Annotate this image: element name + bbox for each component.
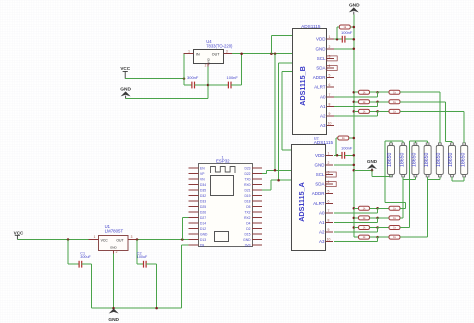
wire stub into ADS1115_B bbox=[282, 71, 292, 73]
battery BT2 18650 bbox=[399, 143, 406, 177]
svg-text:A0: A0 bbox=[319, 210, 325, 215]
resistor R2Bb bbox=[389, 100, 400, 104]
wire bbox=[390, 141, 392, 143]
wire C1 left leg bbox=[67, 240, 69, 265]
resistor R1Bb bbox=[389, 90, 400, 94]
wire GND rail (right) bbox=[353, 15, 355, 238]
wire bbox=[370, 207, 378, 209]
wire bbox=[414, 141, 416, 143]
wire bbox=[414, 177, 416, 180]
resistor R3Ab bbox=[389, 226, 400, 230]
svg-text:GND: GND bbox=[110, 245, 118, 249]
resistor R1Ba bbox=[359, 90, 370, 94]
resistor R3Ba bbox=[359, 109, 370, 113]
wire bbox=[446, 141, 453, 143]
svg-text:300nF: 300nF bbox=[187, 75, 199, 80]
svg-text:GND: GND bbox=[367, 159, 378, 164]
svg-text:5: 5 bbox=[329, 74, 331, 78]
svg-text:VCC: VCC bbox=[120, 66, 130, 71]
svg-text:3: 3 bbox=[329, 54, 331, 58]
svg-text:RX0: RX0 bbox=[244, 183, 251, 187]
wire bbox=[370, 227, 378, 229]
wire bbox=[354, 110, 359, 112]
battery BT7 18650 bbox=[460, 143, 467, 177]
junction rail / divider B3 bbox=[353, 110, 356, 113]
svg-text:RX2: RX2 bbox=[244, 216, 251, 220]
wire to cell 6 top bbox=[451, 142, 453, 144]
wire jog bbox=[377, 208, 379, 213]
svg-text:D2: D2 bbox=[246, 227, 250, 231]
wire bottom bracket cells 4-5 bbox=[428, 178, 440, 180]
wire ADS_A A0 pin bbox=[334, 212, 378, 214]
junction divider A2 tap bbox=[376, 217, 379, 220]
svg-text:D18: D18 bbox=[244, 199, 250, 203]
pin 2 ADS1115_B (GND) bbox=[327, 48, 335, 50]
svg-text:EN: EN bbox=[200, 166, 205, 170]
pin 2 of U1 bbox=[113, 250, 115, 253]
capacitor C6 100nF bbox=[228, 82, 231, 89]
wire bbox=[427, 141, 429, 143]
wire jog bbox=[377, 92, 379, 97]
resistor R3Bb bbox=[389, 109, 400, 113]
wire bbox=[378, 207, 389, 209]
pin 1 of U4 bbox=[184, 53, 194, 55]
wire riser to U4 pin 1 bbox=[183, 54, 185, 79]
wire jog bbox=[377, 218, 379, 223]
wire bottom bracket cells 6-7 bbox=[452, 180, 464, 182]
resistor R0A bbox=[338, 136, 349, 140]
svg-text:18650: 18650 bbox=[412, 152, 418, 167]
svg-text:SCL: SCL bbox=[317, 56, 326, 61]
junction rail / cap A bbox=[353, 154, 356, 157]
pin ESP32 right (TX0) bbox=[252, 178, 262, 180]
wire bbox=[354, 227, 359, 229]
pin 10 ADS1115_A (A3) bbox=[326, 241, 334, 243]
wire bbox=[354, 236, 359, 238]
pin 3 ADS1115_B (SCL) bbox=[327, 57, 335, 59]
wire bbox=[371, 170, 373, 176]
resistor R2Ba bbox=[359, 100, 370, 104]
wire ADS_A A2 pin bbox=[334, 231, 378, 233]
pin 12 ESP32 left (D12) bbox=[189, 228, 199, 230]
svg-text:18650: 18650 bbox=[399, 152, 405, 167]
svg-text:4: 4 bbox=[329, 64, 331, 68]
wire U4 pin2 to GND bus bbox=[207, 67, 209, 99]
pin 9 ADS1115_A (A2) bbox=[326, 231, 334, 233]
wire VDD ADS1115_B bbox=[334, 38, 342, 40]
svg-text:D14: D14 bbox=[200, 221, 206, 225]
svg-text:7: 7 bbox=[328, 209, 330, 213]
wire bbox=[146, 263, 157, 265]
wire tap A4 riser bbox=[427, 179, 429, 237]
wire riser to R0A bbox=[335, 138, 337, 155]
svg-text:1: 1 bbox=[329, 35, 331, 39]
svg-text:100nF: 100nF bbox=[341, 30, 353, 35]
capacitor C4 100nF bbox=[342, 152, 345, 159]
wire C2 left leg bbox=[136, 240, 138, 265]
capacitor C2 100uF bbox=[144, 261, 147, 268]
junction C2 / bus bbox=[155, 307, 158, 310]
wire riser to R0B bbox=[336, 27, 338, 39]
svg-text:ADS1115: ADS1115 bbox=[314, 140, 334, 145]
wire jog bbox=[270, 180, 272, 190]
junction rail / battery GND bbox=[353, 169, 356, 172]
wire 3V3 into ADS1115_B bbox=[271, 35, 292, 37]
junction 5V branch bbox=[181, 238, 184, 241]
pin ESP32 right (D2) bbox=[252, 228, 262, 230]
junction divider B1 tap bbox=[376, 91, 379, 94]
wire 3V3 riser bbox=[270, 36, 272, 54]
resistor R0B bbox=[339, 25, 350, 29]
svg-text:3: 3 bbox=[328, 171, 330, 175]
wire divider B3 to cell bbox=[400, 110, 464, 112]
pin 1 of U1 bbox=[89, 239, 99, 241]
svg-text:2: 2 bbox=[329, 45, 331, 49]
svg-text:8: 8 bbox=[328, 219, 330, 223]
wire divider B3 to cell 7 top bbox=[463, 111, 465, 143]
svg-text:6: 6 bbox=[328, 199, 330, 203]
wire bbox=[463, 177, 465, 181]
junction U1 GND / bus bbox=[112, 307, 115, 310]
wire 5V to ESP32 bbox=[139, 239, 189, 241]
svg-text:D5: D5 bbox=[246, 205, 250, 209]
wire bbox=[378, 236, 389, 238]
pin 2 ESP32 left (VP) bbox=[189, 173, 199, 175]
junction rail / R0B bbox=[353, 26, 356, 29]
svg-text:GND: GND bbox=[200, 232, 208, 236]
wire jog bbox=[265, 170, 267, 173]
wire tap A2 riser bbox=[402, 179, 404, 218]
wire divider A2 out bbox=[400, 217, 403, 219]
svg-text:18650: 18650 bbox=[448, 152, 454, 167]
wire divider B1 to cell 5 top bbox=[439, 92, 441, 143]
wire divider A3 out bbox=[400, 227, 410, 229]
wire GND pin A to rail bbox=[334, 164, 354, 166]
wire riser C6 to 3V3 rail bbox=[241, 54, 243, 85]
wire divider B2 drop bbox=[445, 102, 447, 142]
svg-text:D21: D21 bbox=[244, 188, 250, 192]
battery BT3 18650 bbox=[412, 143, 419, 177]
svg-text:D9: D9 bbox=[200, 243, 204, 247]
pin 7 ADS1115_A (A0) bbox=[326, 212, 334, 214]
junction divider A3 tap bbox=[376, 226, 379, 229]
wire R0A to rail bbox=[349, 137, 354, 139]
wire bbox=[336, 137, 338, 139]
junction C2 tap bbox=[136, 238, 139, 241]
svg-text:10: 10 bbox=[327, 238, 331, 242]
wire bbox=[378, 91, 389, 93]
svg-text:GND: GND bbox=[349, 2, 360, 8]
wire jog bbox=[377, 111, 379, 116]
wire divider B1 to cell bbox=[400, 91, 440, 93]
pin 15 ESP32 left (D9) bbox=[189, 244, 199, 246]
wire bbox=[402, 177, 404, 180]
junction 3V3 rail / SCL drop bbox=[274, 52, 277, 55]
svg-text:LM7805T: LM7805T bbox=[105, 228, 124, 233]
junction SCL bbox=[274, 169, 277, 172]
svg-text:ADS1115: ADS1115 bbox=[301, 24, 321, 29]
wire to C5 bbox=[184, 84, 192, 86]
resistor R1Ab bbox=[389, 206, 400, 210]
wire jog bbox=[377, 237, 379, 242]
wire bbox=[68, 263, 79, 265]
pin 7 ADS1115_B (A0) bbox=[327, 96, 335, 98]
svg-text:100uF: 100uF bbox=[137, 255, 148, 259]
junction rail / divider A3 bbox=[353, 226, 356, 229]
wire GND pin B to rail bbox=[334, 48, 354, 50]
junction rail / divider B1 bbox=[353, 91, 356, 94]
wire VCC to U4 input node bbox=[125, 78, 184, 80]
pin 3 of U4 bbox=[223, 53, 232, 55]
wire riser to ESP32 VIN bbox=[181, 218, 183, 240]
svg-text:9: 9 bbox=[328, 228, 330, 232]
battery BT4 18650 bbox=[424, 143, 431, 177]
svg-text:2: 2 bbox=[328, 161, 330, 165]
svg-text:ALRT: ALRT bbox=[314, 85, 326, 90]
svg-text:D19: D19 bbox=[244, 194, 250, 198]
wire VCC to U1 bbox=[17, 239, 88, 241]
pin ESP32 right (RX2) bbox=[252, 217, 262, 219]
wire bbox=[183, 79, 185, 85]
wire SDA vertical bbox=[278, 63, 280, 180]
svg-text:IN: IN bbox=[196, 53, 200, 57]
svg-text:1: 1 bbox=[188, 49, 190, 53]
wire from ESP32 D22 bbox=[262, 173, 266, 175]
svg-text:VDD: VDD bbox=[316, 37, 326, 42]
wire ESP32 GND down bbox=[180, 245, 182, 308]
junction rail / divider A2 bbox=[353, 217, 356, 220]
junction GND flag / battery bbox=[371, 169, 374, 172]
pin 8 ESP32 left (D25) bbox=[189, 206, 199, 208]
IC ADS1115_B bbox=[293, 24, 327, 135]
wire SCL net A bbox=[266, 169, 291, 171]
junction divider A1 tap bbox=[376, 207, 379, 210]
svg-text:A3: A3 bbox=[319, 239, 325, 244]
svg-text:1: 1 bbox=[94, 235, 96, 239]
svg-text:A3: A3 bbox=[320, 123, 326, 128]
svg-text:OUT: OUT bbox=[212, 53, 220, 57]
svg-text:18650: 18650 bbox=[424, 152, 430, 167]
svg-text:D32: D32 bbox=[200, 194, 206, 198]
svg-text:D22: D22 bbox=[244, 172, 250, 176]
junction SDA bbox=[277, 179, 280, 182]
pin 4 ADS1115_A (SDA) bbox=[326, 183, 334, 185]
junction rail / cap B bbox=[353, 38, 356, 41]
junction C1 tap bbox=[67, 238, 70, 241]
svg-text:GND: GND bbox=[315, 162, 326, 167]
svg-text:10: 10 bbox=[328, 122, 332, 126]
pin 1 ADS1115_A (VDD) bbox=[326, 154, 334, 156]
svg-text:GND: GND bbox=[243, 238, 251, 242]
svg-text:SDA: SDA bbox=[316, 66, 325, 71]
junction 3V3 rail / riser bbox=[270, 52, 273, 55]
ground bbox=[109, 309, 119, 314]
pin 11 ESP32 left (D14) bbox=[189, 222, 199, 224]
junction rail / GND B bbox=[353, 48, 356, 51]
wire tap A1 riser bbox=[384, 141, 386, 203]
svg-text:D13: D13 bbox=[200, 238, 206, 242]
wire divider B2 to cell bbox=[400, 101, 446, 103]
pin 6 ADS1115_B (ALRT) bbox=[327, 86, 335, 88]
battery BT1 18650 bbox=[387, 143, 394, 177]
pin ESP32 right (D22) bbox=[252, 173, 262, 175]
pin 14 ESP32 left (D13) bbox=[189, 239, 199, 241]
junction rail / divider B2 bbox=[353, 101, 356, 104]
svg-text:7: 7 bbox=[329, 93, 331, 97]
wire SDA net B bbox=[271, 179, 291, 181]
wire GND bus (bottom) bbox=[92, 307, 182, 309]
wire C6 to 3V3 drop bbox=[231, 84, 242, 86]
svg-text:ALRT: ALRT bbox=[313, 201, 325, 206]
capacitor C5 300nF bbox=[192, 82, 195, 89]
svg-text:D26: D26 bbox=[200, 210, 206, 214]
pin 6 ADS1115_A (ALRT) bbox=[326, 202, 334, 204]
pin 3 of U1 bbox=[128, 239, 138, 241]
wire bbox=[427, 177, 429, 180]
pin 2 of U4 bbox=[207, 63, 209, 66]
svg-text:D33: D33 bbox=[200, 199, 206, 203]
wire bbox=[370, 217, 378, 219]
pin ESP32 right (3V3) bbox=[252, 244, 262, 246]
pin 1 ESP32 left (EN) bbox=[189, 167, 199, 169]
wire top bracket cells 1-2 bbox=[385, 140, 403, 142]
pin 1 ADS1115_B (VDD) bbox=[327, 38, 335, 40]
pin 2 ADS1115_A (GND) bbox=[326, 164, 334, 166]
svg-text:A1: A1 bbox=[319, 220, 325, 225]
svg-text:D27: D27 bbox=[200, 216, 206, 220]
wire GND node to C6 bbox=[208, 84, 228, 86]
wire top bracket cells 3-4 bbox=[410, 140, 428, 142]
capacitor C3 100nF bbox=[342, 36, 345, 43]
svg-text:18650: 18650 bbox=[436, 152, 442, 167]
pin ESP32 right (D18) bbox=[252, 200, 262, 202]
svg-text:9: 9 bbox=[329, 112, 331, 116]
svg-text:A1: A1 bbox=[320, 104, 326, 109]
wire ADS_B A0 pin bbox=[334, 96, 378, 98]
pin 3 ADS1115_A (SCL) bbox=[326, 174, 334, 176]
wire C1 right leg bbox=[91, 264, 93, 308]
resistor R2Ab bbox=[389, 216, 400, 220]
svg-text:D12: D12 bbox=[200, 227, 206, 231]
svg-text:6: 6 bbox=[329, 83, 331, 87]
svg-text:ADS1115_A: ADS1115_A bbox=[297, 182, 306, 222]
pin ESP32 right (D5) bbox=[252, 206, 262, 208]
wire bbox=[378, 101, 389, 103]
wire R0B to rail bbox=[350, 26, 354, 28]
svg-text:TX0: TX0 bbox=[244, 177, 250, 181]
svg-text:A2: A2 bbox=[320, 114, 326, 119]
battery BT5 18650 bbox=[436, 143, 443, 177]
svg-text:OUT: OUT bbox=[116, 239, 123, 243]
svg-text:A2: A2 bbox=[319, 230, 325, 235]
junction divider A4 tap bbox=[376, 236, 379, 239]
svg-text:3: 3 bbox=[226, 49, 228, 53]
pin 5 ADS1115_A (ADDR) bbox=[326, 193, 334, 195]
wire bbox=[337, 26, 339, 28]
pin 8 ADS1115_B (A1) bbox=[327, 105, 335, 107]
pin 4 ESP32 left (D34) bbox=[189, 184, 199, 186]
pin 3 ESP32 left (VN) bbox=[189, 178, 199, 180]
wire bbox=[378, 217, 389, 219]
pin 10 ESP32 left (D27) bbox=[189, 217, 199, 219]
svg-text:300uF: 300uF bbox=[80, 255, 91, 259]
wire bbox=[439, 177, 441, 180]
svg-text:GND: GND bbox=[108, 317, 119, 323]
junction rail / R0A bbox=[353, 137, 356, 140]
wire bbox=[404, 203, 406, 209]
wire bbox=[370, 110, 378, 112]
resistor R4Ab bbox=[389, 235, 400, 239]
pin ESP32 right (D4) bbox=[252, 222, 262, 224]
wire stub into ADS1115_A bbox=[282, 149, 291, 151]
svg-text:8: 8 bbox=[329, 102, 331, 106]
svg-text:SDA: SDA bbox=[315, 182, 324, 187]
junction 3V3 rail / C6 bbox=[240, 52, 243, 55]
svg-text:ADS1115_B: ADS1115_B bbox=[298, 66, 307, 106]
wire bbox=[390, 176, 392, 177]
ground bbox=[367, 164, 377, 169]
wire SDA stub into ADS1115_B bbox=[279, 62, 293, 64]
wire bbox=[354, 217, 359, 219]
pin ESP32 right (D19) bbox=[252, 195, 262, 197]
wire 3V3 rail from U4 OUT bbox=[232, 53, 292, 55]
wire bbox=[378, 227, 389, 229]
pin ESP32 right (D15) bbox=[252, 233, 262, 235]
wire to cell 1 negative bbox=[372, 176, 391, 178]
wire ADS_B A2 pin bbox=[334, 115, 378, 117]
svg-text:D15: D15 bbox=[244, 232, 250, 236]
wire cap to rail bbox=[345, 154, 354, 156]
wire tap A1 bbox=[385, 202, 405, 204]
wire ADS_B A1 pin bbox=[334, 105, 378, 107]
junction rail / GND A bbox=[353, 164, 356, 167]
regulator U4 7833(TO-220) bbox=[194, 39, 234, 65]
wire U1 GND down bbox=[113, 254, 115, 309]
wire 3V3 vertical to ADS1115_A bbox=[281, 72, 283, 151]
pin 5 ESP32 left (D35) bbox=[189, 189, 199, 191]
svg-text:2: 2 bbox=[205, 64, 207, 68]
svg-text:D34: D34 bbox=[200, 183, 206, 187]
pin 7 ESP32 left (D33) bbox=[189, 200, 199, 202]
wire GND bus (top left) bbox=[126, 98, 208, 100]
svg-text:1: 1 bbox=[328, 151, 330, 155]
IC U2 ADS1115_A bbox=[292, 136, 334, 250]
pin ESP32 right (D23) bbox=[252, 167, 262, 169]
wire VDD ADS1115_A bbox=[334, 154, 342, 156]
wire ADS_A A3 pin bbox=[334, 241, 378, 243]
pin 13 ESP32 left (GND) bbox=[189, 233, 199, 235]
wire C5 to GND node bbox=[195, 84, 209, 86]
svg-text:100nF: 100nF bbox=[227, 75, 239, 80]
regulator U1 LM7805T bbox=[99, 224, 129, 250]
wire bbox=[451, 177, 453, 181]
svg-text:GND: GND bbox=[316, 46, 327, 51]
svg-text:VCC: VCC bbox=[14, 230, 24, 235]
ground bbox=[349, 7, 359, 12]
wire bbox=[370, 91, 378, 93]
svg-text:TX2: TX2 bbox=[244, 210, 250, 214]
pin 8 ADS1115_A (A1) bbox=[326, 222, 334, 224]
svg-text:3V3: 3V3 bbox=[245, 243, 251, 247]
resistor R4Aa bbox=[359, 235, 370, 239]
svg-text:18650: 18650 bbox=[387, 152, 393, 167]
wire ADS_A A1 pin bbox=[334, 222, 378, 224]
svg-text:SCL: SCL bbox=[316, 172, 325, 177]
pin ESP32 right (GND) bbox=[252, 239, 262, 241]
pin ESP32 right (TX2) bbox=[252, 211, 262, 213]
wire jog bbox=[377, 102, 379, 107]
wire bottom bracket cells 2-3 bbox=[403, 178, 415, 180]
